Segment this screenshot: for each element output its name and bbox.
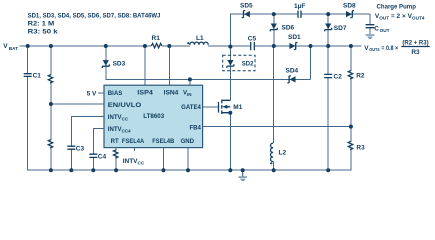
junction dots bottom rail (49, 168, 330, 172)
note text block (28, 13, 161, 36)
wire: top rail R1 to L1 (162, 45, 190, 47)
svg-text:L2: L2 (279, 150, 287, 157)
svg-text:R3: 50 k: R3: 50 k (28, 29, 58, 36)
junction dots charge pump line (272, 12, 330, 16)
inductor L1 (187, 35, 208, 45)
diode SD5 (240, 2, 253, 17)
svg-text:C: C (374, 25, 379, 32)
svg-text:LT8603: LT8603 (143, 114, 165, 120)
capacitor C3 (67, 145, 84, 152)
wire: VOUT4 stub to label (351, 45, 362, 47)
optional diode box SD2 (223, 55, 255, 71)
svg-text:FSEL4B: FSEL4B (152, 139, 174, 145)
svg-text:BAT: BAT (9, 46, 18, 51)
svg-text:INTVCC: INTVCC (108, 115, 129, 121)
svg-text:VOUT = 2 × VOUT4: VOUT = 2 × VOUT4 (375, 13, 425, 21)
svg-text:L1: L1 (196, 35, 204, 42)
resistor divider lower (48, 140, 52, 148)
wire: M1 source to ground rail (229, 113, 231, 171)
svg-text:C4: C4 (98, 153, 107, 160)
wire: FSEL4B to ground rail (163, 148, 165, 171)
ground at COUT (366, 35, 375, 39)
transistor M1 (219, 100, 243, 114)
resistor RT (114, 148, 118, 171)
wire: INTVcc to C3 (71, 117, 104, 171)
diode SD4 (286, 67, 299, 83)
svg-text:GATE4: GATE4 (181, 105, 201, 111)
resistor R1 (151, 35, 162, 48)
svg-text:SD5: SD5 (240, 2, 253, 9)
svg-text:BIAS: BIAS (108, 91, 122, 97)
svg-text:M1: M1 (233, 104, 242, 111)
wire: ISN4 vertical (168, 46, 170, 85)
svg-text:R2: 1 M: R2: 1 M (28, 21, 55, 28)
diode SD3 (102, 60, 125, 68)
inductor L2 (270, 143, 286, 164)
junction dot FB4 divider (349, 125, 353, 129)
resistor divider upper (EN/UVLO) (48, 46, 52, 170)
diode SD7 (325, 24, 347, 32)
svg-text:INTVCC4: INTVCC4 (108, 127, 131, 133)
svg-text:OUT: OUT (380, 28, 390, 33)
junction dot VIN line (188, 77, 192, 81)
capacitor C2 (324, 74, 342, 81)
wire: VIN line from SD3 to riser (106, 47, 311, 79)
junction dot EN divider (49, 102, 53, 106)
svg-text:SD6: SD6 (282, 25, 295, 32)
resistor R3 (348, 127, 365, 171)
svg-text:= 0.8 ×: = 0.8 × (381, 45, 398, 52)
svg-text:R3: R3 (356, 145, 365, 152)
wire: bottom ground rail (28, 168, 352, 171)
svg-text:SD1: SD1 (288, 34, 301, 41)
svg-text:5 V: 5 V (87, 91, 97, 98)
text: VOUT = 2 x VOUT4 (375, 13, 425, 21)
diode SD1 (288, 34, 301, 50)
svg-text:ISP4: ISP4 (137, 91, 153, 97)
svg-text:OUT4: OUT4 (369, 47, 380, 52)
capacitor COUT (366, 25, 390, 33)
svg-text:1µF: 1µF (294, 3, 305, 10)
wire: charge pump top line (231, 14, 371, 47)
wire: node B line C5 to SD1 to VOUT4 end (255, 45, 353, 47)
svg-text:Charge Pump: Charge Pump (377, 3, 416, 10)
diode SD8 (343, 3, 356, 18)
diode SD2 (227, 60, 254, 68)
svg-text:SD7: SD7 (334, 25, 347, 32)
wire: COUT branch (369, 14, 371, 34)
wire: SW to M1 drain vertical with SD2 (229, 47, 231, 100)
capacitor C1 (24, 72, 42, 79)
svg-text:VIN: VIN (183, 91, 192, 97)
svg-text:SD1, SD3, SD4, SD5, SD6, SD7,: SD1, SD3, SD4, SD5, SD6, SD7, SD8: BAT46… (28, 13, 161, 20)
svg-text:C3: C3 (76, 145, 85, 152)
capacitor C4 (89, 153, 106, 160)
ground at rail (239, 170, 247, 181)
svg-text:V: V (3, 43, 8, 50)
wire: INTVcc4 to C4 (93, 128, 104, 170)
wire: FSEL4A stub to INTVcc (123, 148, 145, 166)
svg-text:SD4: SD4 (286, 67, 299, 74)
svg-text:ISN4: ISN4 (164, 91, 179, 97)
junction dots top rail (26, 44, 353, 49)
svg-text:SD8: SD8 (343, 3, 356, 10)
wire: C1 branch (27, 46, 29, 170)
wire: SD4 riser to VOUT4 (310, 46, 312, 79)
wire: SD6 vertical (273, 14, 275, 46)
wire: ISP4 vertical (144, 46, 146, 85)
svg-text:GND: GND (181, 139, 195, 145)
junction dot M1 source (228, 111, 232, 115)
svg-text:C5: C5 (248, 35, 257, 42)
svg-text:FB4: FB4 (189, 126, 201, 132)
wire: EN/UVLO to divider (51, 103, 104, 105)
IC U1 LT8603 (104, 85, 203, 147)
diode SD6 (270, 24, 294, 32)
svg-text:FSEL4A: FSEL4A (122, 139, 145, 145)
wire: SD7/C2 vertical (327, 14, 329, 170)
wire: L2 branch (273, 46, 275, 170)
svg-text:R1: R1 (152, 35, 161, 42)
wire: GATE4 to M1 (203, 106, 218, 108)
wire: FB4 line (203, 126, 351, 128)
svg-text:SD3: SD3 (113, 60, 126, 67)
node VBAT label (3, 43, 18, 51)
svg-text:R3: R3 (411, 49, 420, 56)
svg-text:INTVCC: INTVCC (123, 158, 145, 165)
capacitor 1uF (294, 3, 305, 18)
wire: top rail L1 to SW corner and on to C5 (208, 45, 250, 47)
svg-text:SD2: SD2 (242, 60, 254, 67)
wire: GND pin to ground rail (187, 148, 189, 171)
text: 5V bias (87, 91, 104, 98)
text: VOUT4 formula (364, 40, 430, 56)
resistor R2 (348, 46, 365, 127)
svg-text:R2: R2 (356, 73, 365, 80)
svg-text:(R2 + R3): (R2 + R3) (402, 40, 428, 47)
svg-text:C1: C1 (33, 72, 42, 79)
wire: top rail VBAT to R1 (20, 45, 152, 47)
capacitor C5 (248, 35, 257, 50)
wire: VIN pin drop (189, 79, 191, 85)
svg-text:RT: RT (111, 139, 119, 145)
svg-text:C2: C2 (334, 74, 343, 81)
svg-text:EN/UVLO: EN/UVLO (108, 103, 142, 109)
